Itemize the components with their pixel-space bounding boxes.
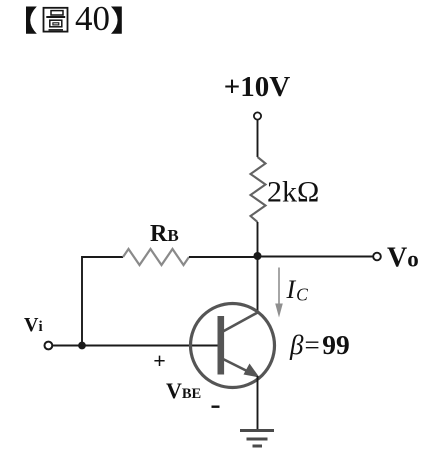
- transistor collector stroke: [222, 312, 259, 332]
- wire corner to RB: [82, 257, 123, 346]
- title bracket left 【: [26, 7, 37, 34]
- wire supply to resistor: [257, 120, 259, 157]
- ground: [240, 431, 274, 447]
- wire resistor to node: [257, 222, 259, 257]
- label minus: [212, 406, 220, 408]
- wire emitter to ground: [257, 376, 259, 430]
- terminal Vo: [373, 253, 381, 261]
- svg-text:+10V: +10V: [224, 71, 291, 103]
- title bracket right 】: [111, 7, 122, 34]
- resistor 2k vertical: [251, 157, 266, 222]
- node base junction: [78, 342, 86, 350]
- transistor Q1 circle: [191, 304, 275, 388]
- node collector junction: [254, 252, 262, 260]
- current IC arrow: [275, 268, 283, 318]
- wire RB to node: [189, 256, 258, 258]
- svg-text:+: +: [153, 348, 166, 373]
- svg-text:β=99: β=99: [289, 329, 350, 360]
- terminal +10V: [254, 112, 261, 119]
- terminal Vi: [45, 342, 53, 350]
- svg-text:40: 40: [75, 0, 110, 38]
- wire Vi to base: [52, 345, 218, 347]
- transistor emitter arrowhead: [244, 364, 260, 378]
- svg-text:VBE: VBE: [166, 378, 201, 403]
- svg-text:Vo: Vo: [387, 243, 419, 274]
- title glyph 圖: [44, 8, 68, 32]
- resistor RB: [123, 249, 189, 265]
- wire node to collector: [257, 257, 259, 313]
- wire node to Vo: [258, 256, 373, 258]
- svg-text:2kΩ: 2kΩ: [267, 176, 319, 209]
- svg-text:RB: RB: [150, 221, 179, 247]
- transistor base bar: [218, 316, 225, 375]
- svg-text:IC: IC: [286, 275, 309, 305]
- transistor emitter stroke: [222, 359, 252, 374]
- svg-text:Vi: Vi: [24, 314, 43, 336]
